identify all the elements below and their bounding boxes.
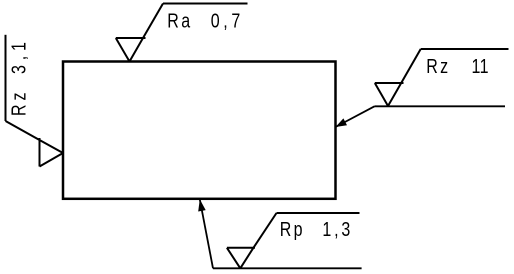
- label Rz 3,1 rotated: [8, 37, 30, 116]
- surface symbol top: shelf line: [163, 3, 248, 5]
- arrowhead right: [336, 118, 348, 127]
- svg-text:Rz: Rz: [8, 88, 30, 116]
- surface symbol left: shelf line: [5, 35, 7, 121]
- leader arrow right: [336, 106, 375, 127]
- surface symbol bottom: long leg: [253, 213, 276, 248]
- label Ra 0,7: [167, 10, 244, 32]
- leader shelf right: [375, 105, 506, 107]
- label Rp 1,3: [280, 219, 353, 241]
- svg-text:Rp: Rp: [280, 219, 305, 241]
- surface symbol bottom: shelf line: [277, 212, 360, 214]
- part outline rectangle: [63, 62, 336, 199]
- svg-text:Rz: Rz: [426, 55, 450, 77]
- leader shelf bottom: [213, 267, 362, 269]
- arrowhead bottom: [198, 199, 206, 211]
- svg-text:3,1: 3,1: [8, 37, 30, 74]
- surface symbol bottom: triangle: [227, 248, 255, 268]
- surface symbol right: long leg: [401, 49, 421, 83]
- svg-text:11: 11: [472, 55, 489, 77]
- leader arrow bottom: [200, 200, 213, 269]
- surface symbol left: long leg: [6, 121, 40, 140]
- surface symbol right: shelf line: [421, 48, 509, 50]
- surface symbol left: triangle: [40, 138, 64, 167]
- surface symbol right: triangle: [375, 83, 404, 106]
- svg-text:1,3: 1,3: [322, 219, 353, 241]
- svg-text:0,7: 0,7: [211, 10, 244, 32]
- surface symbol top: long leg: [143, 4, 163, 39]
- svg-text:Ra: Ra: [167, 10, 192, 32]
- surface symbol top: triangle: [116, 38, 146, 62]
- label Rz 11: [426, 55, 489, 77]
